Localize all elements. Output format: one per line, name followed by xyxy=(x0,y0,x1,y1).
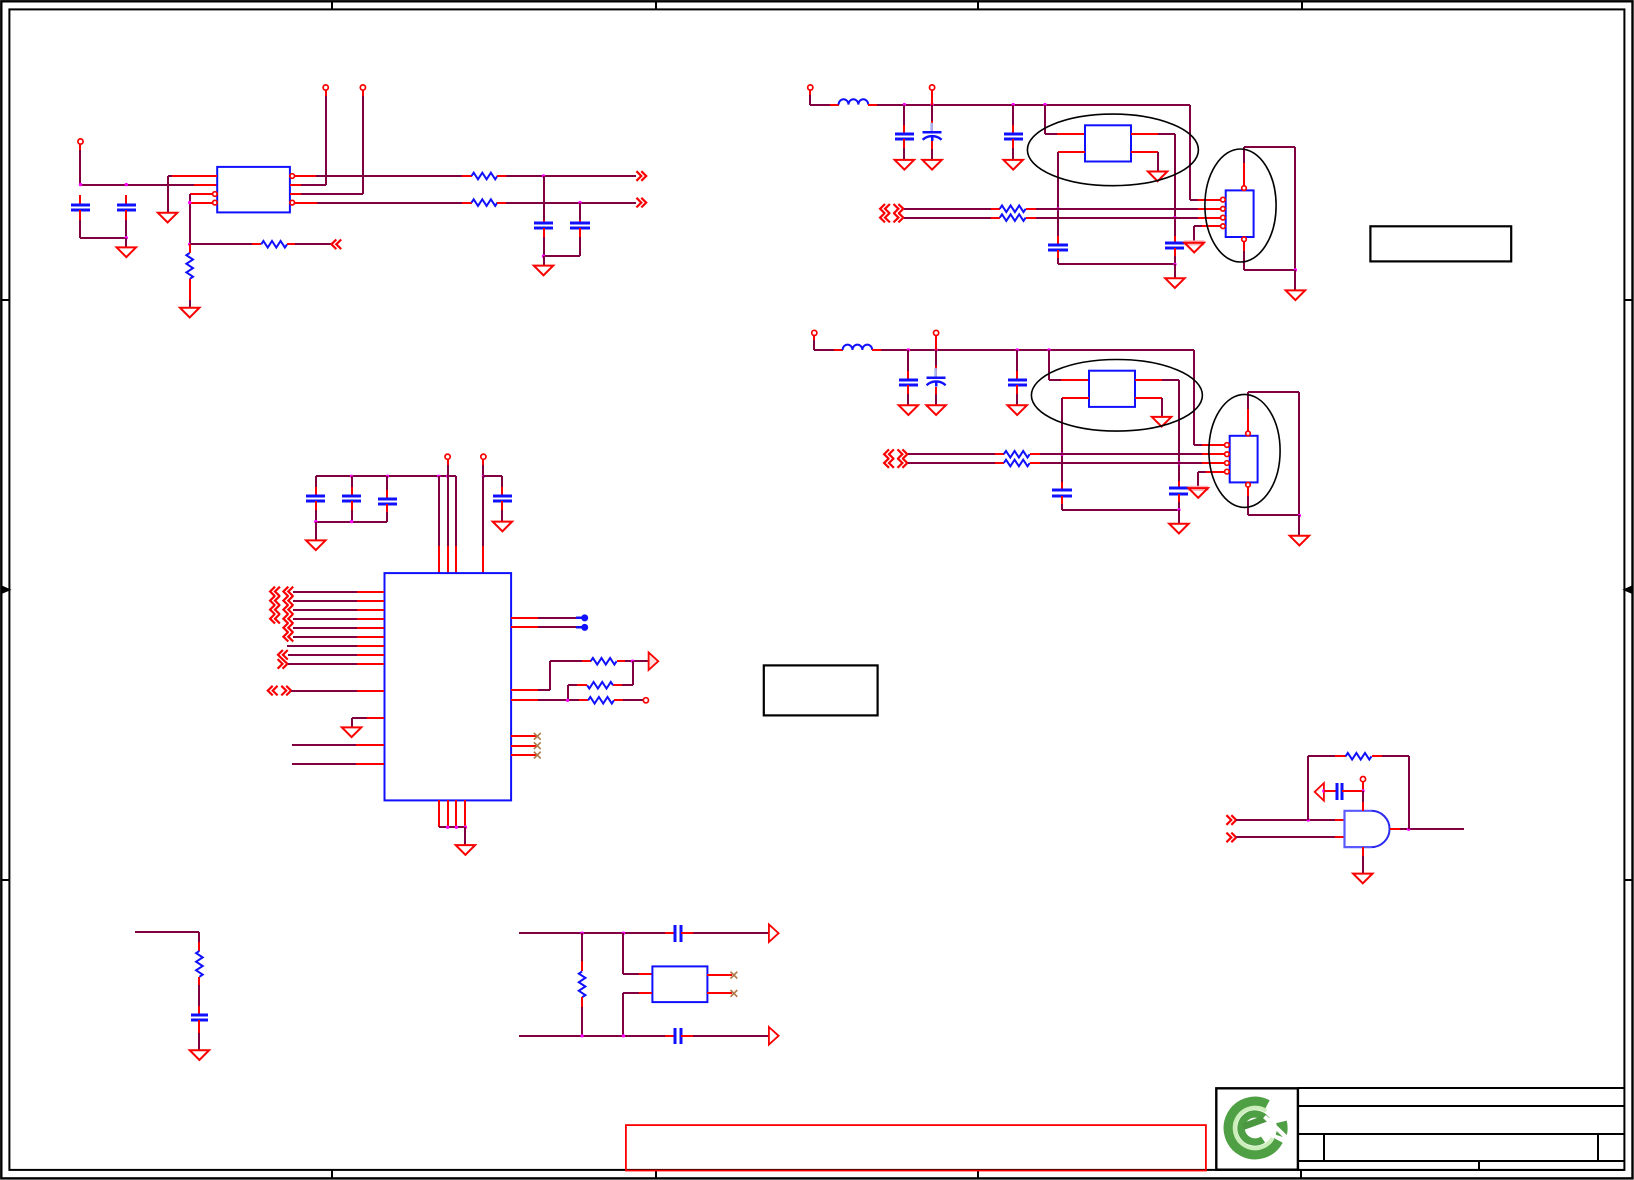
port chevron IN5 xyxy=(283,623,293,633)
wire bus VCC2 xyxy=(868,104,877,106)
capacitor C2 xyxy=(125,195,127,205)
junction T4 rail2 xyxy=(482,475,485,478)
U4 supply pin b wire xyxy=(438,476,440,546)
wire feedback vertical xyxy=(189,194,191,244)
note box B2 xyxy=(1370,226,1511,261)
junction bottom R9 xyxy=(580,1034,583,1037)
junction bottom rail xyxy=(125,236,128,239)
U2 pin3 bubble xyxy=(1221,215,1226,220)
U3 top pin wire xyxy=(1247,409,1249,431)
wire R7 to test circle xyxy=(614,699,623,701)
capacitor C3e xyxy=(1178,481,1180,488)
wire diff pair bottom xyxy=(519,1035,665,1037)
capacitor C15 xyxy=(674,1028,677,1044)
capacitor C2d xyxy=(1057,236,1059,245)
junction Y2 pin3 row xyxy=(1173,216,1176,219)
connector J3B circle xyxy=(934,330,939,335)
junction pin4 on feedback xyxy=(188,201,191,204)
wire bottom pins rail xyxy=(439,826,465,828)
output port triangle TXN xyxy=(769,1027,779,1045)
U3 bottom bubble xyxy=(1246,482,1251,487)
port chevron G1 in B xyxy=(1226,833,1236,843)
wire to ground right xyxy=(1294,270,1296,290)
port triangle CIN xyxy=(1315,783,1324,801)
U1 pin 7 wire VOUT2 xyxy=(294,202,317,204)
connector U3 body xyxy=(1230,436,1258,483)
Y4 NC pin x1 xyxy=(707,974,732,976)
U2 bottom bubble xyxy=(1242,237,1247,242)
junction top Y4 xyxy=(622,932,625,935)
U1 output pin bubble top xyxy=(290,174,295,179)
test connector circle G1 xyxy=(1360,777,1365,782)
wire U4 pin L13 xyxy=(292,763,356,765)
ellipse around U3 xyxy=(1209,394,1280,507)
zone tick right 1 xyxy=(1624,299,1633,301)
wire U4 pin L6 xyxy=(293,636,357,638)
zone tick right 2 xyxy=(1624,879,1633,881)
U3 bottom pin wire xyxy=(1247,487,1249,496)
U2 pin4 wire to ground xyxy=(1202,225,1221,227)
wire C15 to port xyxy=(681,1035,693,1037)
wire circle to cap node xyxy=(1362,782,1364,791)
wire rail to ground xyxy=(464,827,466,845)
port chevron IN8 left xyxy=(278,650,288,660)
ground below C2a xyxy=(895,160,914,170)
junction rail pin c xyxy=(446,475,449,478)
U4 pin R2 wire to bus tap xyxy=(511,626,538,628)
wire caps bottom rail xyxy=(316,521,387,523)
junction caps rail xyxy=(1173,263,1176,266)
U4 pin R1 wire to bus tap xyxy=(511,617,538,619)
zone tick left 2 xyxy=(1,879,9,881)
wire U4 pin L5 xyxy=(293,627,357,629)
junction gnd rail b xyxy=(446,826,449,829)
port chevron IN3 double xyxy=(270,605,280,615)
wire rail to ground xyxy=(315,522,317,540)
port chevron FB xyxy=(331,240,341,250)
resistor R6 xyxy=(587,682,613,689)
capacitor C3a xyxy=(907,350,909,371)
junction R4 node xyxy=(566,699,569,702)
wire row A to R3a xyxy=(908,453,995,455)
ground below C3 xyxy=(534,266,553,276)
wire bus VCC3 xyxy=(872,349,881,351)
wire bus down to connector pin1 xyxy=(1189,105,1191,200)
port chevron G1 in A xyxy=(1226,815,1236,825)
junction ground rail xyxy=(1294,268,1297,271)
ground below C2c xyxy=(1004,160,1023,170)
wire C16 to ground xyxy=(198,1020,200,1033)
U1 pin 3 stub xyxy=(190,193,213,195)
wire T4 down xyxy=(482,459,484,465)
wire R10 to C16 xyxy=(198,977,200,985)
U1 pin 4 stub xyxy=(190,202,213,204)
wire to ground filter xyxy=(543,256,545,266)
centre arrow right edge xyxy=(1624,587,1633,593)
U1 pin 1 wire to ground xyxy=(172,175,217,177)
wire C14 to port xyxy=(681,932,693,934)
junction bus C2a xyxy=(903,103,906,106)
ground right of U3 xyxy=(1290,536,1309,546)
junction Y3 pin2 row xyxy=(1060,453,1063,456)
junction port CIN xyxy=(1322,789,1325,792)
wire G1 input B xyxy=(1236,836,1335,838)
resistor R2 xyxy=(261,241,287,248)
zone tick bottom 3 xyxy=(977,1170,979,1179)
wire bus to crystal Y3 pin1 xyxy=(1048,350,1050,380)
title block row separator 2 xyxy=(1298,1133,1624,1135)
power connector T4 xyxy=(481,454,486,459)
U2 pin4 bubble xyxy=(1221,224,1226,229)
wire bus down to connector pin1 xyxy=(1193,350,1195,445)
U4 NC pin x2 xyxy=(511,745,536,747)
wire stub to R10 xyxy=(135,931,199,933)
title block top row line xyxy=(1298,1087,1624,1089)
wire T3 down to rail xyxy=(447,459,449,465)
port chevron bidir IO10 xyxy=(268,686,278,696)
capacitor C3c xyxy=(1016,350,1018,371)
wire U4 pin L10 xyxy=(291,690,357,692)
U2 bottom pin wire xyxy=(1243,242,1245,251)
junction caps bottom C10 xyxy=(350,520,353,523)
wire U4 pin L12 xyxy=(292,744,356,746)
junction bus C3b xyxy=(934,348,937,351)
U3 pin4 wire to ground xyxy=(1206,471,1225,473)
zone tick bottom 2 xyxy=(655,1170,657,1179)
U1 pin 7 bubble xyxy=(290,200,295,205)
ground right of U2 xyxy=(1286,290,1305,300)
feedback wire right vertical xyxy=(1372,755,1382,757)
resistor R9 xyxy=(581,933,583,961)
capacitor C4 xyxy=(579,203,581,220)
wire R3b to connector pin3 xyxy=(1030,462,1040,464)
Y3 pin3 wire xyxy=(1135,379,1162,381)
wire G1 input A xyxy=(1236,819,1335,821)
junction top R9 xyxy=(580,932,583,935)
resistor R3 xyxy=(186,253,193,279)
U4 bottom pin c xyxy=(455,800,457,827)
U4 bottom pin d xyxy=(464,800,466,827)
wire Y4 pin1 xyxy=(622,933,624,974)
crystal oscillator Y2 xyxy=(1085,125,1131,161)
port chevron VOUT2 xyxy=(636,198,646,208)
port chevron VOUT1 xyxy=(636,171,646,181)
ground at U2 pin4 pink xyxy=(1184,240,1204,245)
zone tick left 1 xyxy=(1,299,9,301)
wire G1 output xyxy=(1390,828,1400,830)
junction Y2 pin2 row xyxy=(1056,207,1059,210)
wire node to gate top xyxy=(1362,791,1364,802)
ground below C9 xyxy=(306,540,325,550)
inductor L3 xyxy=(843,345,873,350)
node VIN bus xyxy=(80,184,194,186)
junction bus C2b xyxy=(930,103,933,106)
wire to ground right xyxy=(1298,515,1300,536)
Y3 pin4 wire to ground xyxy=(1135,397,1162,399)
U3 pin1 bubble xyxy=(1225,443,1230,448)
wire port to C13 xyxy=(1324,790,1337,792)
wire C3-C4 bottom xyxy=(544,255,580,257)
ellipse around Y2 xyxy=(1027,114,1198,186)
capacitor C2c xyxy=(1012,105,1014,125)
Y4 NC pin x2 xyxy=(707,992,732,994)
capacitor C10 xyxy=(351,476,353,487)
feedback wire left vertical xyxy=(1307,756,1309,820)
junction bus C2c xyxy=(1012,103,1015,106)
junction caps rail xyxy=(1177,508,1180,511)
capacitor C3 xyxy=(543,176,545,220)
decoupling rail 2 xyxy=(483,475,502,477)
port chevron IN2 double xyxy=(270,596,280,606)
U4 pin R3 wire xyxy=(511,689,538,691)
zone tick bottom 1 xyxy=(331,1170,333,1179)
resistor R1A xyxy=(472,173,498,180)
zone tick top 3 xyxy=(977,1,979,9)
junction rail C11 xyxy=(386,475,389,478)
ground below C3c xyxy=(1008,405,1027,415)
capacitor C14 xyxy=(674,925,677,942)
connector T2 circle xyxy=(360,85,365,90)
AND gate G1 xyxy=(1345,811,1372,847)
Y2 pin3 wire xyxy=(1131,133,1158,135)
wire bus to crystal Y2 pin1 xyxy=(1044,105,1046,134)
power input connector P1 xyxy=(78,139,83,144)
U1 pin 6 wire to connector T1 xyxy=(290,184,301,186)
wire rail to ground xyxy=(1174,264,1176,278)
ground below C12 xyxy=(493,522,512,532)
wire R2 to port xyxy=(287,243,295,245)
polarized capacitor C3b xyxy=(935,336,937,350)
U2 pin2 bubble xyxy=(1221,207,1226,212)
junction VIN at C1 xyxy=(79,183,82,186)
wire R2a to connector pin2 xyxy=(1026,208,1036,210)
U4 pin R4 wire xyxy=(511,699,538,701)
port chevron OSC2 B xyxy=(880,213,890,223)
Y3 pin2 wire xyxy=(1062,397,1089,399)
junction caps bottom C9 xyxy=(314,520,317,523)
ground below C3a xyxy=(899,405,918,415)
ground below caps rail xyxy=(1169,524,1188,534)
company logo green ring xyxy=(1228,1102,1289,1155)
U4 NC pin x3 xyxy=(511,754,536,756)
Y2 pin2 wire xyxy=(1058,151,1085,153)
title block bottom strip divider xyxy=(1300,1170,1302,1179)
capacitor C9 xyxy=(315,476,317,487)
resistor R3b xyxy=(1004,460,1030,467)
wire R1A to port xyxy=(497,175,506,177)
title block divider size cell xyxy=(1323,1134,1325,1161)
wire bus segment L2 left xyxy=(810,104,830,106)
capacitor C16 xyxy=(191,1014,208,1017)
zone tick top 1 xyxy=(331,1,333,9)
junction rail pin b xyxy=(437,475,440,478)
output port triangle OUT1 xyxy=(649,652,659,670)
port chevron OSC3 B xyxy=(884,458,894,468)
U3 pin2 bubble xyxy=(1225,452,1230,457)
port chevron OSC3 A xyxy=(884,449,894,459)
connector J2B circle xyxy=(930,85,935,90)
capacitor C11 xyxy=(386,476,388,490)
wire U4 pin L7 xyxy=(287,645,357,647)
resistor R2b xyxy=(1000,214,1026,221)
wire U4 pin L9 xyxy=(288,663,357,665)
wire feedback to R2 xyxy=(190,243,252,245)
junction G1 output xyxy=(1407,828,1410,831)
polarized capacitor C2b xyxy=(931,90,933,105)
junction VOUT2 filter xyxy=(578,201,581,204)
junction rail C10 xyxy=(350,475,353,478)
junction Y3 pin3 row xyxy=(1177,461,1180,464)
wire U4 pin L3 xyxy=(293,609,357,611)
junction VOUT1 filter xyxy=(542,174,545,177)
crystal Y4 body xyxy=(652,966,707,1002)
main IC U4 body xyxy=(385,573,512,800)
power connector T3 xyxy=(445,454,450,459)
wire rail to ground xyxy=(1178,510,1180,524)
wire Y4 pin2 xyxy=(622,993,624,1036)
wire row B to R3b xyxy=(908,462,995,464)
junction bus crystal feed xyxy=(1043,103,1046,106)
ground at Y3 pin4 xyxy=(1152,417,1171,427)
U4 supply pin e wire xyxy=(482,476,484,546)
zone tick top 2 xyxy=(655,1,657,9)
crystal oscillator Y3 xyxy=(1089,371,1135,407)
port chevron IN9 right xyxy=(278,659,288,669)
connector J3A circle xyxy=(812,330,817,335)
ground below U1 pin1 xyxy=(158,213,177,223)
wire R5 to port xyxy=(617,660,625,662)
centre arrow left edge xyxy=(1,587,9,593)
title block divider date cell xyxy=(1478,1161,1480,1170)
wire to R3 xyxy=(189,244,191,253)
wire R2b to connector pin3 xyxy=(1026,217,1036,219)
title block row separator 3 xyxy=(1298,1160,1624,1162)
junction gnd rail d xyxy=(464,826,467,829)
wire row A to R2a xyxy=(904,208,991,210)
U4 NC pin x1 xyxy=(511,735,536,737)
note box B1 xyxy=(764,665,878,715)
junction VIN at C2 xyxy=(125,183,128,186)
port chevron IN4 double xyxy=(270,614,280,624)
ground below R3 xyxy=(180,308,199,318)
title block divider rev cell xyxy=(1597,1134,1599,1161)
wire R3a to connector pin2 xyxy=(1030,453,1040,455)
U2 top bubble xyxy=(1242,186,1247,191)
wire J2A down xyxy=(809,90,811,95)
wire C1-C2 bottom rail xyxy=(80,237,126,239)
junction feedback A xyxy=(1307,818,1310,821)
ground below U4 xyxy=(456,845,475,855)
U1 pin 3 bubble xyxy=(213,192,218,197)
ellipse around U2 xyxy=(1205,149,1276,262)
bus entry dot R1 xyxy=(581,614,588,621)
output port triangle TXP xyxy=(769,924,779,942)
junction cap node xyxy=(1361,789,1364,792)
resistor R7 xyxy=(588,697,614,704)
U2 pin1 bubble xyxy=(1221,197,1226,202)
U1 pin 4 bubble xyxy=(213,200,218,205)
title block logo cell xyxy=(1216,1088,1298,1169)
Y2 pin4 wire to ground xyxy=(1131,151,1158,153)
wire diff pair top xyxy=(519,932,665,934)
resistor R5 xyxy=(591,658,617,665)
U4 bottom pin b xyxy=(447,800,449,827)
junction bus crystal feed xyxy=(1047,348,1050,351)
U3 pin3 bubble xyxy=(1225,461,1230,466)
test point circle xyxy=(643,698,648,703)
junction bottom Y4 xyxy=(622,1034,625,1037)
U4 supply pin d wire xyxy=(455,476,457,546)
junction feedback node xyxy=(188,243,191,246)
U1 output wire VOUT1 xyxy=(294,175,316,177)
resistor R2a xyxy=(1000,206,1026,213)
G1 ground pin xyxy=(1362,847,1364,856)
bus entry dot R2 xyxy=(581,624,588,631)
capacitor C3d xyxy=(1061,482,1063,490)
inductor L2 xyxy=(839,99,869,104)
ground at Y2 pin4 xyxy=(1148,172,1167,182)
wire caps bottom rail xyxy=(1062,509,1179,511)
resistor R3a xyxy=(1004,451,1030,458)
connector T1 circle xyxy=(323,85,328,90)
regulator U1 body xyxy=(217,167,290,213)
wire U4 pin L1 xyxy=(293,591,357,593)
revision highlight red box xyxy=(626,1125,1206,1170)
capacitor C12 xyxy=(501,476,503,487)
junction ground rail xyxy=(1298,514,1301,517)
wire P1 down xyxy=(79,144,81,150)
junction C3 bottom xyxy=(542,255,545,258)
U4 ground pin wire xyxy=(367,717,384,719)
capacitor C1 xyxy=(79,195,81,205)
ground below C16 xyxy=(190,1050,209,1060)
wire R6 to pin R4 vertical xyxy=(577,684,587,686)
wire row B to R2b xyxy=(904,217,991,219)
ground below C2b xyxy=(922,160,941,170)
wire C13 to node xyxy=(1342,790,1362,792)
U2 top pin wire xyxy=(1243,163,1245,186)
capacitor C2a xyxy=(903,105,905,125)
junction bus C3c xyxy=(1016,348,1019,351)
U1 pin 5 wire to connector T2 xyxy=(290,193,301,195)
resistor R10 xyxy=(196,951,203,977)
zone tick top 4 xyxy=(1301,1,1303,9)
connector U2 body xyxy=(1226,190,1254,237)
wire junction down to R6 xyxy=(632,661,634,685)
ground below C2 xyxy=(117,247,136,257)
junction bus C3a xyxy=(907,348,910,351)
wire R1B to port xyxy=(497,202,506,204)
port chevron OSC2 A xyxy=(880,204,890,214)
U3 top bubble xyxy=(1246,431,1251,436)
resistor R1B xyxy=(472,199,498,206)
wire U4 pin L8 xyxy=(288,654,357,656)
port chevron IN1 double xyxy=(270,587,280,597)
capacitor C13 xyxy=(1336,783,1339,800)
ground below G1 xyxy=(1353,874,1372,884)
ground at U3 pin4 pink xyxy=(1188,486,1208,491)
wire bus segment L3 left xyxy=(814,349,834,351)
wire R3 to ground xyxy=(189,279,191,300)
wire caps bottom rail xyxy=(1058,263,1175,265)
wire U4 pin L2 xyxy=(293,600,357,602)
decoupling rail 1 xyxy=(316,475,456,477)
U3 pin4 bubble xyxy=(1225,469,1230,474)
U4 supply pin c wire xyxy=(447,476,449,546)
port chevron IN6 xyxy=(283,632,293,642)
title block row separator 1 xyxy=(1298,1105,1624,1107)
junction gnd rail c xyxy=(455,826,458,829)
